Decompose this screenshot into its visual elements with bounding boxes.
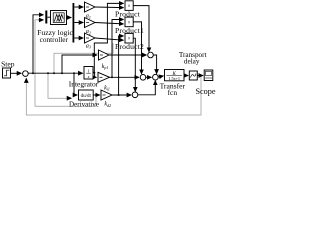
Scope block [195, 70, 215, 96]
wire e line sum1 to integrator [28, 72, 82, 74]
wire integrator out jog to ki gain [93, 73, 96, 78]
svg-text:Derivative: Derivative [69, 100, 99, 108]
Integrator block [69, 67, 99, 89]
svg-text:Product2: Product2 [115, 42, 144, 51]
wire mux out to FLC [47, 16, 50, 18]
demux bar [73, 3, 75, 43]
wire ki row to sum B [110, 76, 139, 78]
Fuzzy logic controller block [37, 11, 73, 44]
svg-text:Step: Step [1, 59, 15, 68]
wire arrow into mux input2 [39, 19, 44, 21]
mux bar [45, 11, 47, 24]
wire e-branch z-route [54, 43, 113, 73]
wire e branch down to derivative [74, 73, 77, 95]
wire sum B out to sum C [146, 76, 152, 78]
gain kd2 [101, 90, 112, 108]
wire product out drop to sum A top [133, 6, 149, 52]
svg-text:delay: delay [184, 57, 200, 65]
wire e-branch down to lower-left arrow near derivative [48, 73, 71, 98]
svg-text:1.5s+1: 1.5s+1 [168, 76, 180, 81]
wire derivative branch down along bottom up to mux input2 [35, 20, 96, 106]
gain a1 [85, 2, 96, 20]
gain kp1 [99, 50, 110, 70]
wire sum A out down to sum C top [153, 55, 156, 74]
svg-text:Scope: Scope [195, 87, 215, 96]
wire V3 kd-row tap up to product2 upper input [119, 36, 124, 95]
Transfer fcn block [160, 70, 186, 98]
sum B [140, 75, 146, 81]
gain a2 [85, 18, 96, 36]
wire V1 integrator-out tap up to product upper input [94, 3, 123, 72]
wire transport delay to scope [197, 75, 203, 77]
svg-text:fcn: fcn [168, 88, 178, 97]
wire sum C out to transfer fcn [158, 76, 163, 77]
Product block [115, 1, 141, 19]
wire e branch to kp gain [62, 55, 97, 73]
sum D [132, 92, 138, 98]
gain ki1 [98, 72, 110, 91]
wire a1 to product lower input [95, 6, 123, 9]
svg-text:s: s [88, 74, 90, 79]
wire demux to gain a3 [74, 37, 83, 39]
wire product1 out drop to sum B top [133, 22, 141, 74]
Derivative block [69, 90, 99, 108]
Step block [1, 59, 15, 78]
gain a3 [85, 33, 96, 50]
wire V2 ki-row tap up to product1 upper input [112, 20, 123, 78]
svg-text:du/dt: du/dt [81, 94, 92, 99]
wire sum D out up to sum C bottom [138, 81, 156, 95]
wire feedback from transport-delay output down along bottom to sum1 [26, 76, 201, 116]
wire transfer fcn to transport delay [184, 75, 188, 77]
Product2 block [115, 33, 144, 51]
wire step to sum1 [11, 72, 22, 74]
wire a2 to product1 lower input [95, 23, 123, 24]
wire FLC out to demux [67, 17, 72, 19]
wire kd row to sum D [112, 94, 131, 96]
wire kp row to sum A [109, 54, 146, 56]
Product1 block [115, 17, 144, 35]
gray routed wires [26, 20, 201, 115]
sum A [148, 52, 154, 58]
Transport delay block [179, 51, 207, 80]
wire derivative out to kd gain [93, 94, 100, 96]
svg-text:Integrator: Integrator [69, 79, 99, 88]
arrow at end of lower-left branch [69, 97, 71, 99]
svg-text:controller: controller [40, 35, 69, 44]
junction dots [32, 54, 202, 96]
sum C [153, 74, 159, 80]
sum1 circle [23, 71, 29, 77]
wire demux to gain a1 [74, 6, 83, 8]
wire product2 out drop to sum D top [133, 38, 135, 91]
wire e tap up to mux input1 [33, 15, 43, 73]
wire a3 to product2 lower input [95, 38, 123, 40]
wire demux to gain a2 [74, 22, 83, 24]
wire feedback arrow into sum1 bottom [25, 78, 27, 79]
